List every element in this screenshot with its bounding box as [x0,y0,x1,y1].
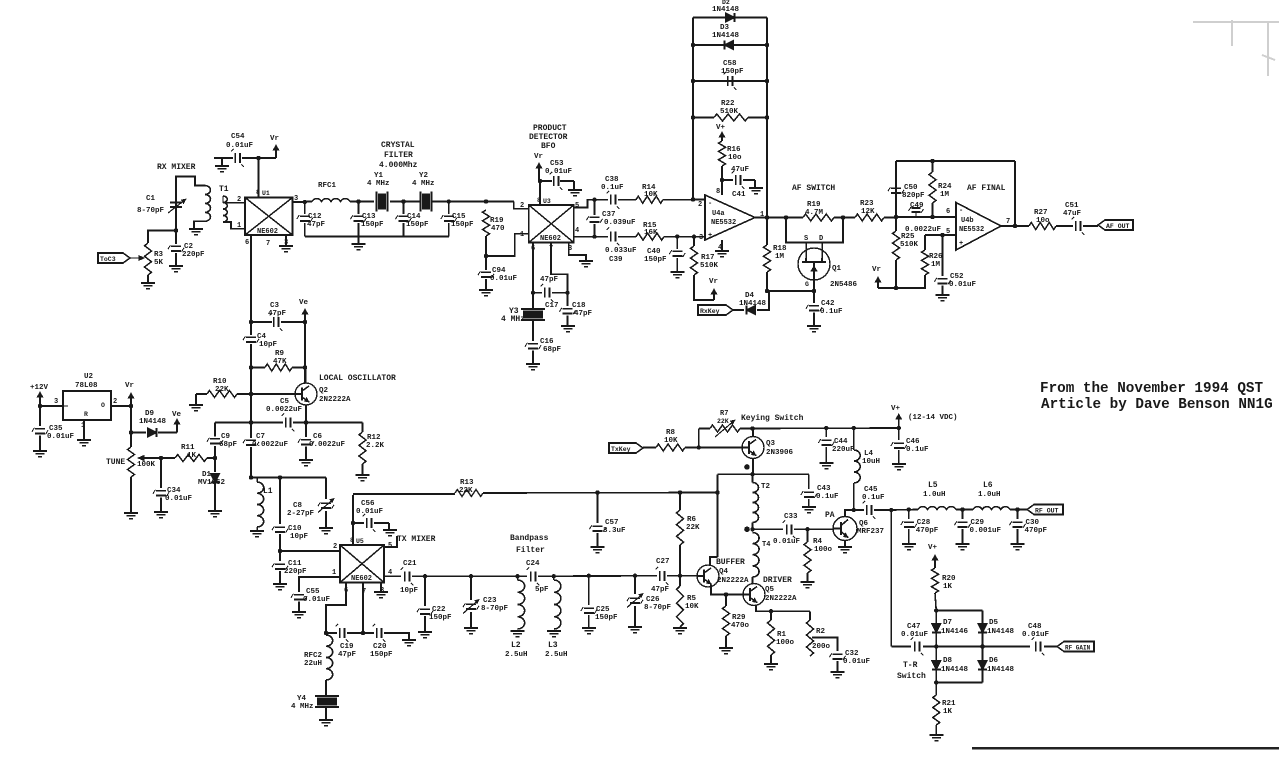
svg-text:R5: R5 [687,595,697,603]
svg-text:NE5532: NE5532 [959,226,984,234]
svg-text:0.01uF: 0.01uF [47,433,75,441]
svg-text:2N3906: 2N3906 [766,449,794,457]
svg-text:R3: R3 [154,251,164,259]
svg-text:10pF: 10pF [259,341,278,349]
svg-text:47uF: 47uF [731,166,750,174]
svg-text:TxKey: TxKey [611,446,631,453]
svg-text:C46: C46 [906,438,920,446]
svg-text:0.1uF: 0.1uF [862,494,885,502]
svg-text:D6: D6 [989,657,999,665]
svg-text:1: 1 [237,222,241,230]
svg-text:47K: 47K [273,358,287,366]
svg-text:2: 2 [333,543,337,551]
svg-text:R20: R20 [942,575,956,583]
svg-text:0.01uF: 0.01uF [1022,631,1050,639]
svg-text:R8: R8 [666,429,676,437]
svg-text:7: 7 [1006,218,1010,226]
svg-text:Q1: Q1 [832,265,842,273]
svg-text:820pF: 820pF [902,192,925,200]
svg-text:C54: C54 [231,133,245,141]
svg-text:R19: R19 [490,217,504,225]
svg-text:RF OUT: RF OUT [1035,507,1059,514]
svg-text:D8: D8 [943,657,953,665]
svg-text:1: 1 [520,231,524,239]
svg-text:2: 2 [698,201,702,209]
svg-text:1N4148: 1N4148 [941,666,969,674]
svg-text:470: 470 [491,225,505,233]
svg-text:L4: L4 [864,450,874,458]
svg-text:Vr: Vr [709,278,718,286]
svg-text:RF GAIN: RF GAIN [1065,644,1091,651]
svg-text:C2: C2 [184,243,194,251]
svg-text:10K: 10K [644,191,658,199]
svg-text:470pF: 470pF [916,527,939,535]
svg-text:C34: C34 [167,487,181,495]
svg-text:47pF: 47pF [574,310,593,318]
svg-text:5: 5 [575,202,579,210]
svg-text:4 MHz: 4 MHz [412,180,435,188]
svg-text:C22: C22 [432,606,446,614]
svg-text:L6: L6 [983,481,993,490]
svg-text:R: R [84,411,88,418]
svg-text:8-70pF: 8-70pF [644,604,672,612]
svg-text:R24: R24 [938,183,952,191]
svg-text:V+: V+ [928,544,938,552]
svg-text:10pF: 10pF [400,587,419,595]
svg-text:D4: D4 [745,292,755,300]
svg-text:8-70pF: 8-70pF [137,207,165,215]
svg-text:C30: C30 [1026,519,1040,527]
svg-text:12K: 12K [861,208,875,216]
svg-text:150pF: 150pF [451,221,474,229]
svg-text:C27: C27 [656,558,670,566]
svg-text:220pF: 220pF [284,568,307,576]
svg-text:L1: L1 [263,487,273,496]
svg-text:2N2222A: 2N2222A [765,595,797,603]
svg-text:C16: C16 [540,338,554,346]
svg-text:1N4148: 1N4148 [712,32,740,40]
svg-text:C50: C50 [904,184,918,192]
svg-text:220pF: 220pF [182,251,205,259]
svg-text:0.001uF: 0.001uF [970,527,1002,535]
svg-text:47pF: 47pF [307,221,326,229]
svg-text:C47: C47 [907,623,921,631]
svg-text:+12V: +12V [30,384,49,392]
svg-text:C25: C25 [596,606,610,614]
svg-text:10o: 10o [1036,217,1050,225]
svg-text:2N2222A: 2N2222A [319,396,351,404]
svg-text:0.1uF: 0.1uF [601,184,624,192]
svg-text:C51: C51 [1065,202,1079,210]
svg-text:4.000Mhz: 4.000Mhz [379,161,418,170]
svg-text:RX MIXER: RX MIXER [157,163,196,172]
svg-text:R16: R16 [727,146,741,154]
svg-text:47pF: 47pF [651,586,670,594]
svg-text:Article by Dave Benson NN1G: Article by Dave Benson NN1G [1041,397,1273,413]
svg-text:2-27pF: 2-27pF [287,510,315,518]
svg-text:100o: 100o [776,639,795,647]
svg-text:R17: R17 [701,254,715,262]
svg-text:NE602: NE602 [351,575,372,583]
svg-text:DETECTOR: DETECTOR [529,133,568,142]
svg-text:0.1uF: 0.1uF [906,446,929,454]
svg-text:0.01uF: 0.01uF [356,508,384,516]
svg-text:NE602: NE602 [257,228,278,236]
svg-text:2: 2 [237,196,241,204]
svg-text:C45: C45 [864,486,878,494]
svg-text:C49: C49 [910,202,924,210]
svg-text:C3: C3 [270,302,280,310]
svg-text:5K: 5K [154,259,164,267]
svg-text:1: 1 [332,569,336,577]
svg-text:-: - [959,207,963,215]
svg-text:C94: C94 [492,267,506,275]
svg-text:C1: C1 [146,195,156,203]
svg-text:D5: D5 [989,619,999,627]
svg-text:1N4148: 1N4148 [139,418,167,426]
svg-text:L5: L5 [928,481,938,490]
svg-text:T2: T2 [761,483,771,491]
svg-text:C38: C38 [605,176,619,184]
svg-text:150pF: 150pF [361,221,384,229]
svg-text:PRODUCT: PRODUCT [533,124,567,133]
svg-text:1.0uH: 1.0uH [978,491,1001,499]
svg-text:T-R: T-R [903,661,918,670]
svg-text:Q6: Q6 [859,520,869,528]
svg-text:22K: 22K [459,487,473,495]
svg-text:From the November 1994 QST: From the November 1994 QST [1040,381,1263,397]
svg-text:Ve: Ve [299,299,309,307]
svg-text:R26: R26 [929,253,943,261]
svg-text:U5: U5 [356,538,364,545]
svg-text:S: S [804,235,808,243]
svg-text:C52: C52 [950,273,964,281]
svg-text:150pF: 150pF [406,221,429,229]
svg-text:10o: 10o [728,154,742,162]
svg-text:C58: C58 [723,60,737,68]
svg-text:DRIVER: DRIVER [763,576,792,585]
svg-text:LOCAL OSCILLATOR: LOCAL OSCILLATOR [319,374,396,383]
svg-text:R11: R11 [181,444,195,452]
svg-text:C39: C39 [609,256,623,264]
svg-text:4 MHz: 4 MHz [501,315,525,324]
svg-text:0.01uF: 0.01uF [490,275,518,283]
svg-text:C9: C9 [221,433,231,441]
svg-text:2: 2 [520,202,524,210]
svg-text:C35: C35 [49,425,63,433]
svg-text:ToC3: ToC3 [100,256,116,263]
svg-text:2N2222A: 2N2222A [717,577,749,585]
svg-text:C56: C56 [361,500,375,508]
svg-text:8-70pF: 8-70pF [481,605,509,613]
svg-text:3.3uF: 3.3uF [603,527,626,535]
svg-text:C37: C37 [602,211,616,219]
svg-text:1N4148: 1N4148 [987,628,1015,636]
svg-text:C29: C29 [971,519,985,527]
svg-text:1N4146: 1N4146 [941,628,969,636]
svg-text:-: - [708,200,712,208]
svg-text:C20: C20 [373,643,387,651]
svg-text:Vr: Vr [270,135,279,143]
svg-text:Bandpass: Bandpass [510,534,549,543]
svg-text:0.0022uF: 0.0022uF [252,441,289,449]
svg-text:AF OUT: AF OUT [1106,223,1130,230]
svg-text:D9: D9 [145,410,155,418]
svg-text:22K: 22K [686,524,700,532]
svg-text:C12: C12 [308,213,322,221]
svg-text:T1: T1 [219,185,229,194]
svg-text:O: O [101,402,105,409]
svg-text:0.01uF: 0.01uF [226,142,254,150]
svg-text:10K: 10K [685,603,699,611]
svg-text:U4b: U4b [961,217,974,225]
svg-text:1M: 1M [931,261,941,269]
svg-text:AF FINAL: AF FINAL [967,184,1006,193]
svg-text:L3: L3 [548,641,558,650]
svg-text:C48: C48 [1028,623,1042,631]
svg-text:R2: R2 [816,628,826,636]
svg-text:R13: R13 [460,479,474,487]
svg-text:0.01uF: 0.01uF [545,168,573,176]
svg-text:1N4148: 1N4148 [739,300,767,308]
svg-text:2.2K: 2.2K [366,442,385,450]
svg-text:Q4: Q4 [719,568,729,576]
svg-text:47pF: 47pF [268,310,287,318]
svg-text:C42: C42 [821,300,835,308]
svg-text:6: 6 [245,239,249,247]
svg-text:MV1662: MV1662 [198,479,226,487]
svg-text:5: 5 [388,542,392,550]
svg-text:R9: R9 [275,350,285,358]
svg-text:R29: R29 [732,614,746,622]
svg-text:U1: U1 [262,190,270,197]
svg-text:0.1uF: 0.1uF [820,308,843,316]
svg-text:4.7M: 4.7M [805,209,824,217]
svg-text:C33: C33 [784,513,798,521]
svg-text:C55: C55 [306,588,320,596]
svg-text:C32: C32 [845,650,859,658]
svg-text:C5: C5 [280,398,290,406]
svg-text:22K: 22K [215,386,229,394]
svg-text:D1: D1 [202,471,212,479]
svg-text:C10: C10 [288,525,302,533]
svg-text:R22: R22 [721,100,735,108]
svg-text:150pF: 150pF [370,651,393,659]
svg-text:Q3: Q3 [766,440,776,448]
svg-text:200o: 200o [812,643,831,651]
svg-text:RxKey: RxKey [700,308,720,315]
svg-text:78L08: 78L08 [75,382,98,390]
svg-text:510K: 510K [720,108,739,116]
svg-text:C26: C26 [646,596,660,604]
svg-text:U4a: U4a [712,210,725,218]
svg-text:TUNE: TUNE [106,458,125,467]
svg-text:C15: C15 [452,213,466,221]
svg-text:D2: D2 [722,0,730,6]
svg-text:R18: R18 [773,245,787,253]
svg-text:T4: T4 [762,541,770,549]
svg-text:G: G [805,281,809,288]
svg-text:100K: 100K [137,461,156,469]
svg-text:R27: R27 [1034,209,1048,217]
svg-text:R21: R21 [942,700,956,708]
svg-text:2.5uH: 2.5uH [505,651,528,659]
svg-text:22uH: 22uH [304,660,322,668]
svg-text:510K: 510K [900,241,919,249]
svg-text:470o: 470o [731,622,750,630]
svg-text:22K: 22K [717,418,729,425]
svg-text:MRF237: MRF237 [857,528,884,536]
svg-text:PA: PA [825,511,835,520]
svg-text:100o: 100o [814,546,833,554]
svg-text:C7: C7 [256,433,265,441]
svg-text:Q5: Q5 [765,586,775,594]
svg-text:4 MHz: 4 MHz [367,180,390,188]
svg-text:150pF: 150pF [721,68,744,76]
svg-text:D3: D3 [720,24,730,32]
svg-text:C17: C17 [545,302,559,310]
svg-text:0.033uF: 0.033uF [605,247,637,255]
svg-text:47pF: 47pF [338,651,357,659]
svg-text:Q2: Q2 [319,387,329,395]
svg-text:0.01uF: 0.01uF [165,495,193,503]
svg-text:C44: C44 [834,438,848,446]
svg-text:8: 8 [716,188,720,196]
svg-text:Keying Switch: Keying Switch [741,414,804,423]
svg-text:C24: C24 [526,560,540,568]
svg-text:0.0022uF: 0.0022uF [309,441,346,449]
svg-text:D7: D7 [943,619,952,627]
svg-text:R10: R10 [213,378,227,386]
svg-text:7: 7 [266,240,270,248]
svg-text:Vr: Vr [872,266,881,274]
svg-text:C6: C6 [313,433,323,441]
svg-text:10pF: 10pF [290,533,309,541]
svg-text:C57: C57 [605,519,619,527]
svg-text:C23: C23 [483,597,497,605]
svg-text:2: 2 [113,398,117,406]
svg-text:510K: 510K [700,262,719,270]
svg-text:0.01uF: 0.01uF [773,538,801,546]
svg-text:0.01uF: 0.01uF [843,658,871,666]
svg-text:0.01uF: 0.01uF [303,596,331,604]
svg-text:NE602: NE602 [540,235,561,243]
svg-text:C8: C8 [293,502,303,510]
svg-text:CRYSTAL: CRYSTAL [381,141,415,150]
svg-text:3: 3 [54,398,58,406]
svg-text:Y1: Y1 [374,172,384,180]
svg-text:4: 4 [575,227,579,235]
svg-text:5pF: 5pF [535,586,549,594]
svg-text:C40: C40 [647,248,661,256]
svg-text:0.1uF: 0.1uF [816,493,839,501]
svg-text:Vr: Vr [534,153,543,161]
svg-text:10uH: 10uH [862,458,880,466]
svg-text:C19: C19 [340,643,354,651]
svg-text:1.0uH: 1.0uH [923,491,946,499]
svg-text:NE5532: NE5532 [711,219,736,227]
svg-text:L2: L2 [511,641,521,650]
svg-text:C43: C43 [817,485,831,493]
svg-text:TX MIXER: TX MIXER [397,535,436,544]
svg-text:U3: U3 [543,198,551,205]
svg-text:4 MHz: 4 MHz [291,703,314,711]
svg-text:1N4148: 1N4148 [987,666,1015,674]
svg-text:C18: C18 [572,302,586,310]
svg-text:6: 6 [946,208,950,216]
svg-text:RFC2: RFC2 [304,652,323,660]
svg-text:Y4: Y4 [297,695,307,703]
svg-text:150pF: 150pF [644,256,667,264]
svg-text:1M: 1M [775,253,785,261]
svg-text:10K: 10K [664,437,678,445]
svg-text:BFO: BFO [541,142,556,151]
svg-text:(12-14 VDC): (12-14 VDC) [908,414,958,422]
svg-text:R1: R1 [777,631,787,639]
svg-text:47uF: 47uF [1063,210,1082,218]
svg-text:Vr: Vr [125,382,134,390]
svg-text:Y2: Y2 [419,172,429,180]
svg-text:V+: V+ [891,405,901,413]
svg-text:AF SWITCH: AF SWITCH [792,184,835,193]
svg-text:150pF: 150pF [595,614,618,622]
svg-text:+: + [959,240,963,248]
svg-text:R4: R4 [813,538,823,546]
svg-text:Switch: Switch [897,672,926,681]
svg-text:16K: 16K [644,229,658,237]
svg-text:V+: V+ [716,124,726,132]
svg-text:3: 3 [699,234,703,242]
svg-text:BUFFER: BUFFER [716,558,745,567]
svg-text:C11: C11 [288,560,302,568]
svg-text:C13: C13 [362,213,376,221]
svg-text:C21: C21 [403,560,417,568]
svg-text:2.5uH: 2.5uH [545,651,568,659]
svg-text:D: D [819,235,823,243]
svg-text:FILTER: FILTER [384,151,413,160]
svg-text:C28: C28 [917,519,931,527]
svg-text:1M: 1M [940,191,950,199]
svg-text:C41: C41 [732,191,746,199]
svg-text:220uF: 220uF [832,446,855,454]
svg-text:0.039uF: 0.039uF [604,219,636,227]
svg-text:Filter: Filter [516,546,545,555]
svg-text:R6: R6 [687,516,697,524]
svg-text:Ve: Ve [172,411,182,419]
svg-text:0.01uF: 0.01uF [949,281,977,289]
svg-text:R12: R12 [367,434,381,442]
svg-text:C4: C4 [257,333,267,341]
svg-text:1K: 1K [943,583,953,591]
svg-text:1N4148: 1N4148 [712,6,740,14]
svg-text:150pF: 150pF [429,614,452,622]
svg-text:470pF: 470pF [1025,527,1048,535]
svg-text:47pF: 47pF [540,276,559,284]
svg-text:2N5486: 2N5486 [830,281,858,289]
svg-text:0.01uF: 0.01uF [901,631,929,639]
svg-text:0.0022uF: 0.0022uF [266,406,303,414]
svg-text:C53: C53 [550,160,564,168]
svg-text:R25: R25 [901,233,915,241]
svg-text:R7: R7 [720,410,728,418]
svg-text:R23: R23 [860,200,874,208]
svg-text:68pF: 68pF [219,441,238,449]
svg-text:1K: 1K [187,452,197,460]
svg-text:1K: 1K [943,708,953,716]
svg-text:C14: C14 [407,213,421,221]
svg-text:U2: U2 [84,373,94,381]
svg-text:R19: R19 [807,201,821,209]
